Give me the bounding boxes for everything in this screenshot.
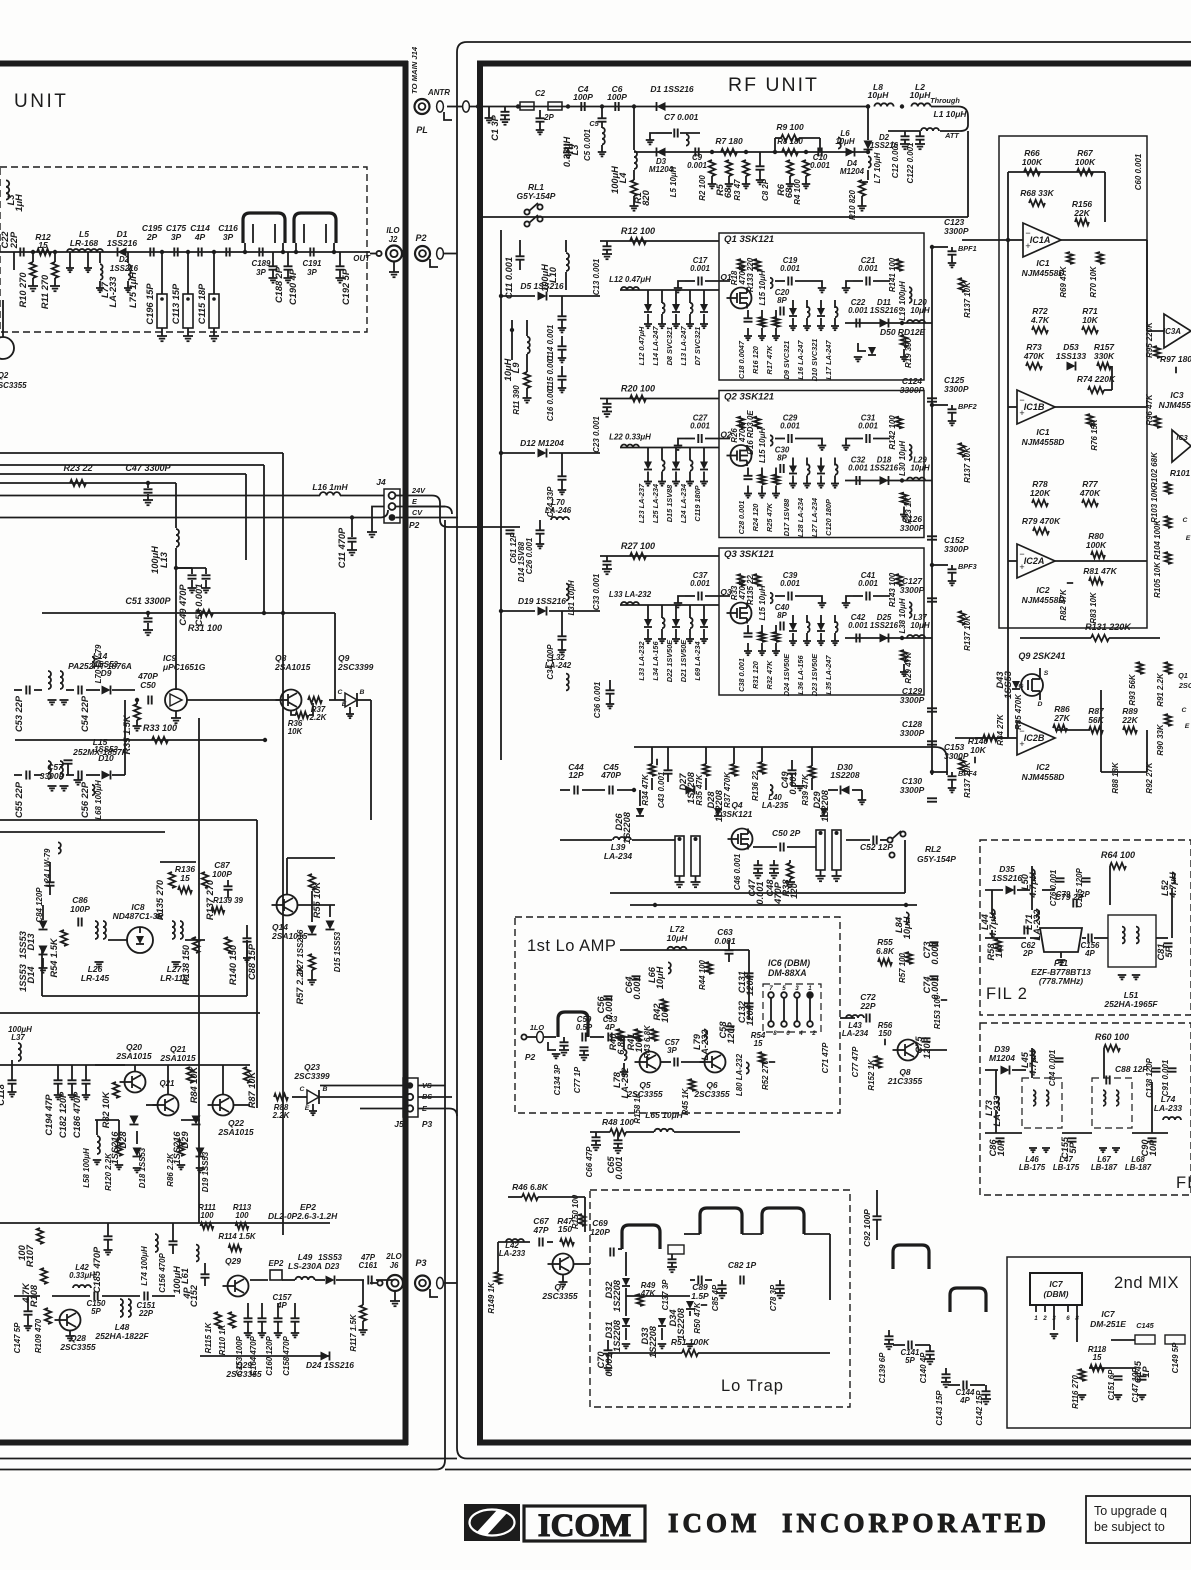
svg-text:Lo Trap: Lo Trap xyxy=(721,1377,784,1395)
svg-text:2SC3355: 2SC3355 xyxy=(225,1369,262,1379)
svg-text:C77 1P: C77 1P xyxy=(573,1066,582,1093)
svg-text:100K: 100K xyxy=(1075,157,1096,167)
svg-text:L13: L13 xyxy=(159,551,169,568)
svg-text:L22 0.33μH: L22 0.33μH xyxy=(609,433,651,442)
svg-text:10μH: 10μH xyxy=(667,933,689,943)
svg-text:R64 100: R64 100 xyxy=(1101,850,1135,860)
svg-text:L16 LA-247: L16 LA-247 xyxy=(796,340,805,380)
svg-text:27K: 27K xyxy=(1053,713,1070,723)
svg-text:21C3355: 21C3355 xyxy=(887,1076,923,1086)
svg-text:R139 39: R139 39 xyxy=(213,896,243,905)
svg-text:R102 68K: R102 68K xyxy=(1150,451,1159,488)
svg-text:10K: 10K xyxy=(1082,315,1098,325)
svg-text:R138 150: R138 150 xyxy=(181,944,191,985)
svg-text:BPF3: BPF3 xyxy=(958,562,977,571)
svg-text:R93 56K: R93 56K xyxy=(1128,673,1137,705)
svg-text:E: E xyxy=(1186,535,1191,542)
svg-text:LR-168: LR-168 xyxy=(70,238,99,248)
svg-text:R44 100: R44 100 xyxy=(698,959,707,989)
svg-text:C191: C191 xyxy=(303,259,322,268)
svg-text:NJM4558D: NJM4558D xyxy=(1022,772,1065,782)
svg-text:1SS216: 1SS216 xyxy=(107,238,137,248)
svg-text:FIL: FIL xyxy=(1176,1174,1191,1192)
svg-text:1SS53: 1SS53 xyxy=(18,963,28,992)
svg-text:L58 100μH: L58 100μH xyxy=(82,1148,91,1188)
svg-text:C11 0.001: C11 0.001 xyxy=(504,257,514,299)
svg-text:R105 10K: R105 10K xyxy=(1153,561,1162,598)
svg-text:C140 4P: C140 4P xyxy=(919,1352,928,1383)
svg-text:2P: 2P xyxy=(1022,949,1033,958)
svg-text:4: 4 xyxy=(798,1030,803,1037)
svg-text:47P: 47P xyxy=(532,1225,548,1235)
svg-text:8P: 8P xyxy=(777,296,787,305)
svg-text:0.001: 0.001 xyxy=(614,1156,624,1179)
svg-text:10μH: 10μH xyxy=(902,916,912,939)
svg-text:10K: 10K xyxy=(288,727,304,736)
svg-text:LB-187: LB-187 xyxy=(1091,1163,1118,1172)
svg-text:1S2208: 1S2208 xyxy=(820,789,830,822)
svg-text:R91 2.2K: R91 2.2K xyxy=(1156,672,1165,707)
svg-text:L36 LA-156: L36 LA-156 xyxy=(796,655,805,695)
svg-text:IC2B: IC2B xyxy=(1024,733,1045,743)
svg-text:C16 0.001: C16 0.001 xyxy=(546,385,555,422)
svg-text:E: E xyxy=(305,1105,310,1112)
svg-text:120P: 120P xyxy=(726,1021,736,1043)
svg-text:L7 10μH: L7 10μH xyxy=(873,152,882,183)
svg-text:C66 47P: C66 47P xyxy=(585,1146,594,1177)
svg-text:C47 3300P: C47 3300P xyxy=(125,463,171,473)
svg-text:1: 1 xyxy=(1034,1315,1038,1322)
svg-text:4P: 4P xyxy=(1084,949,1095,958)
svg-text:100P: 100P xyxy=(212,869,232,879)
svg-text:7: 7 xyxy=(769,985,773,992)
svg-text:C38 0.001: C38 0.001 xyxy=(737,658,746,692)
svg-text:5P: 5P xyxy=(1068,1142,1078,1154)
svg-text:0.001: 0.001 xyxy=(848,306,868,315)
svg-text:R82 10K: R82 10K xyxy=(101,1090,111,1128)
svg-text:LA-242: LA-242 xyxy=(545,661,572,670)
svg-text:100: 100 xyxy=(235,1211,249,1220)
svg-text:100P: 100P xyxy=(607,92,627,102)
svg-text:C: C xyxy=(1183,517,1188,524)
svg-text:ILO: ILO xyxy=(386,226,400,235)
svg-text:2SA1015: 2SA1015 xyxy=(159,1053,196,1063)
svg-text:DM-251E: DM-251E xyxy=(1090,1319,1126,1329)
svg-text:R110 1K: R110 1K xyxy=(218,1323,227,1355)
svg-text:C188 2P: C188 2P xyxy=(274,266,284,303)
svg-text:LA-232: LA-232 xyxy=(700,1029,710,1061)
svg-text:252HA-1822F: 252HA-1822F xyxy=(94,1331,149,1341)
svg-text:LS-230A: LS-230A xyxy=(288,1261,322,1271)
svg-text:LA-234: LA-234 xyxy=(604,851,633,861)
svg-text:R86 2.2K: R86 2.2K xyxy=(166,1152,175,1187)
svg-text:R114 1.5K: R114 1.5K xyxy=(218,1232,257,1241)
svg-text:L34 LA-156: L34 LA-156 xyxy=(651,641,660,681)
svg-text:C13 0.001: C13 0.001 xyxy=(592,259,601,296)
svg-text:D17 1SV88: D17 1SV88 xyxy=(782,498,791,536)
svg-text:C8 2P: C8 2P xyxy=(761,178,770,201)
svg-text:5P: 5P xyxy=(91,1307,101,1316)
svg-text:R137 10K: R137 10K xyxy=(963,281,972,318)
svg-text:R11 390: R11 390 xyxy=(512,385,521,415)
svg-text:UNIT: UNIT xyxy=(14,91,68,112)
svg-text:8P: 8P xyxy=(777,454,787,463)
svg-text:P2: P2 xyxy=(409,520,420,530)
svg-text:R76 15K: R76 15K xyxy=(1090,418,1099,450)
svg-text:10μH: 10μH xyxy=(835,137,855,146)
svg-text:Through: Through xyxy=(930,96,960,105)
svg-text:R11 270: R11 270 xyxy=(40,274,50,309)
svg-text:0.5P: 0.5P xyxy=(576,1023,593,1032)
svg-text:FIL 2: FIL 2 xyxy=(986,985,1028,1003)
svg-text:470K: 470K xyxy=(1023,351,1045,361)
svg-text:R135 270: R135 270 xyxy=(155,879,165,920)
svg-text:6.8K: 6.8K xyxy=(876,946,895,956)
svg-text:C88 15P: C88 15P xyxy=(247,943,257,980)
svg-text:R115 1K: R115 1K xyxy=(204,1321,213,1353)
svg-text:0.001: 0.001 xyxy=(690,422,710,431)
svg-text:LA-233: LA-233 xyxy=(108,276,118,308)
svg-text:C118: C118 xyxy=(0,1083,6,1105)
svg-text:Q2 3SK121: Q2 3SK121 xyxy=(724,392,774,403)
svg-text:0.001: 0.001 xyxy=(780,422,800,431)
svg-text:DM-88XA: DM-88XA xyxy=(768,968,807,978)
svg-text:R10 820: R10 820 xyxy=(848,189,857,219)
svg-text:Q2: Q2 xyxy=(720,430,732,440)
svg-text:D23 1SV50E: D23 1SV50E xyxy=(810,653,819,696)
svg-text:IC3A: IC3A xyxy=(1163,327,1181,336)
svg-text:IC2: IC2 xyxy=(1036,762,1049,772)
svg-text:C54 22P: C54 22P xyxy=(80,695,90,732)
svg-text:R27 100: R27 100 xyxy=(621,541,655,551)
svg-text:3300P: 3300P xyxy=(40,771,65,781)
svg-text:820: 820 xyxy=(641,189,651,205)
svg-text:C194 47P: C194 47P xyxy=(44,1094,54,1136)
svg-text:R116 270: R116 270 xyxy=(1071,1375,1080,1409)
svg-text:470P: 470P xyxy=(137,671,158,681)
svg-text:IC6 (DBM): IC6 (DBM) xyxy=(768,958,810,968)
svg-text:3300P: 3300P xyxy=(900,695,925,705)
svg-text:C115 18P: C115 18P xyxy=(197,283,207,324)
svg-text:L28 LA-234: L28 LA-234 xyxy=(796,498,805,537)
svg-text:R142 100: R142 100 xyxy=(888,415,897,450)
svg-text:1SS53: 1SS53 xyxy=(318,1253,342,1262)
svg-text:R79 470K: R79 470K xyxy=(1022,516,1061,526)
svg-text:C60 0.001: C60 0.001 xyxy=(1134,154,1143,191)
svg-text:Q1: Q1 xyxy=(1178,671,1188,680)
svg-text:0.001: 0.001 xyxy=(714,936,735,946)
svg-text:4.7K: 4.7K xyxy=(21,1282,31,1304)
svg-text:D7 SVC321: D7 SVC321 xyxy=(693,327,702,366)
svg-text:2SC3355: 2SC3355 xyxy=(626,1089,663,1099)
svg-text:L30 10μH: L30 10μH xyxy=(898,441,907,476)
svg-text:C77 47P: C77 47P xyxy=(851,1046,860,1077)
svg-text:0.001: 0.001 xyxy=(690,579,710,588)
svg-text:C134 3P: C134 3P xyxy=(553,1064,562,1095)
svg-text:C51 3300P: C51 3300P xyxy=(125,596,171,606)
svg-text:2SC3355: 2SC3355 xyxy=(59,1342,96,1352)
svg-text:0.001: 0.001 xyxy=(858,422,878,431)
svg-text:C49 470P: C49 470P xyxy=(178,584,188,626)
svg-text:R152 1K: R152 1K xyxy=(867,1058,876,1090)
svg-text:10μH: 10μH xyxy=(655,966,665,989)
svg-text:470P: 470P xyxy=(600,770,621,780)
svg-text:D10: D10 xyxy=(98,753,114,763)
svg-text:C55 22P: C55 22P xyxy=(14,781,24,818)
svg-text:120K: 120K xyxy=(1030,488,1051,498)
svg-text:R29 47K: R29 47K xyxy=(904,651,913,683)
svg-text:0.001: 0.001 xyxy=(810,161,830,170)
svg-text:D14 1SV88: D14 1SV88 xyxy=(517,541,526,582)
svg-text:56K: 56K xyxy=(1088,715,1104,725)
svg-text:252HA-1965F: 252HA-1965F xyxy=(1103,999,1158,1009)
svg-text:0.001: 0.001 xyxy=(858,264,878,273)
svg-text:L27 LA-234: L27 LA-234 xyxy=(810,498,819,537)
svg-text:ICOM INCORPORATED: ICOM INCORPORATED xyxy=(668,1508,1050,1538)
svg-text:3300P: 3300P xyxy=(944,226,969,236)
svg-text:R39 47K: R39 47K xyxy=(801,773,810,805)
svg-text:L17 LA-247: L17 LA-247 xyxy=(824,340,833,380)
svg-text:R4 100: R4 100 xyxy=(793,179,802,205)
svg-text:1SS216: 1SS216 xyxy=(870,621,899,630)
svg-text:IC1: IC1 xyxy=(1036,427,1049,437)
svg-text:L33 LA-232: L33 LA-232 xyxy=(609,590,652,599)
svg-text:C82 1P: C82 1P xyxy=(728,1260,757,1270)
svg-text:C26 0.001: C26 0.001 xyxy=(525,538,534,575)
svg-text:L38 10μH: L38 10μH xyxy=(898,598,907,633)
svg-text:R87 10K: R87 10K xyxy=(247,1070,257,1108)
svg-text:10μH: 10μH xyxy=(868,90,890,100)
svg-text:120P: 120P xyxy=(590,1227,610,1237)
svg-text:2P: 2P xyxy=(543,113,554,122)
svg-text:C88 12P: C88 12P xyxy=(1115,1064,1148,1074)
svg-text:L68 100μH: L68 100μH xyxy=(94,780,103,820)
svg-text:IC2A: IC2A xyxy=(1024,556,1045,566)
svg-text:C28 0.001: C28 0.001 xyxy=(737,501,746,535)
svg-text:R46 6.8K: R46 6.8K xyxy=(512,1182,549,1192)
svg-text:R50 47K: R50 47K xyxy=(693,1301,702,1333)
svg-text:R7 180: R7 180 xyxy=(715,136,743,146)
svg-text:22K: 22K xyxy=(1121,715,1138,725)
svg-text:1μH: 1μH xyxy=(14,194,24,212)
svg-text:C113 15P: C113 15P xyxy=(171,283,181,324)
svg-text:L1 10μH: L1 10μH xyxy=(934,109,968,119)
svg-text:1SS133: 1SS133 xyxy=(1056,351,1086,361)
svg-text:22P: 22P xyxy=(9,231,19,249)
svg-text:24V: 24V xyxy=(411,486,426,495)
svg-text:R33 100: R33 100 xyxy=(143,723,177,733)
svg-text:R131 220K: R131 220K xyxy=(1085,622,1132,632)
svg-text:C92 100P: C92 100P xyxy=(862,1209,872,1247)
svg-text:LA-246: LA-246 xyxy=(545,506,572,515)
svg-text:15: 15 xyxy=(180,873,190,883)
svg-text:NJM4558D: NJM4558D xyxy=(1022,268,1065,278)
svg-text:L15 10μH: L15 10μH xyxy=(758,428,767,463)
svg-text:C145: C145 xyxy=(1136,1321,1154,1330)
svg-text:C50: C50 xyxy=(140,680,156,690)
svg-text:2SC3399: 2SC3399 xyxy=(293,1071,330,1081)
svg-text:IC3: IC3 xyxy=(1170,390,1183,400)
svg-text:4P: 4P xyxy=(276,1301,287,1310)
svg-text:4P: 4P xyxy=(194,232,206,242)
svg-text:4P: 4P xyxy=(604,1023,615,1032)
svg-text:2SC3355: 2SC3355 xyxy=(541,1291,578,1301)
svg-text:C137 3P: C137 3P xyxy=(661,1279,670,1310)
svg-text:3300P: 3300P xyxy=(944,544,969,554)
svg-text:J4: J4 xyxy=(376,477,386,487)
svg-text:R2 100: R2 100 xyxy=(698,175,707,201)
svg-text:330K: 330K xyxy=(1094,351,1115,361)
svg-text:3P: 3P xyxy=(171,232,182,242)
svg-text:0.001: 0.001 xyxy=(788,771,798,794)
svg-text:47P: 47P xyxy=(360,1253,376,1262)
svg-text:2: 2 xyxy=(1042,1315,1047,1322)
svg-text:15: 15 xyxy=(754,1039,763,1048)
svg-text:BPF1: BPF1 xyxy=(958,244,977,253)
svg-text:0.001: 0.001 xyxy=(687,161,707,170)
svg-text:be subject to: be subject to xyxy=(1094,1520,1165,1534)
svg-text:R57 2.2K: R57 2.2K xyxy=(295,964,305,1004)
svg-text:R120 2.2K: R120 2.2K xyxy=(104,1152,113,1191)
svg-text:D22 1SV50E: D22 1SV50E xyxy=(665,639,674,682)
svg-text:22P: 22P xyxy=(859,1001,875,1011)
svg-text:R74 220K: R74 220K xyxy=(1077,374,1116,384)
svg-text:15: 15 xyxy=(1093,1353,1102,1362)
svg-text:R137 10K: R137 10K xyxy=(963,614,972,651)
svg-text:L23 LA-237: L23 LA-237 xyxy=(637,483,646,523)
svg-text:1SS53: 1SS53 xyxy=(18,930,28,959)
svg-text:C50 2P: C50 2P xyxy=(772,828,801,838)
svg-text:C12 0.007: C12 0.007 xyxy=(891,141,900,178)
svg-text:L15 10μH: L15 10μH xyxy=(758,270,767,305)
svg-text:2P: 2P xyxy=(146,232,158,242)
svg-text:R140 150: R140 150 xyxy=(228,944,238,985)
svg-text:R85 470K: R85 470K xyxy=(1014,693,1023,730)
svg-text:IC1B: IC1B xyxy=(1024,402,1045,412)
svg-text:D19 1SS216: D19 1SS216 xyxy=(518,596,566,606)
svg-text:IC7: IC7 xyxy=(1049,1279,1063,1289)
svg-text:4P: 4P xyxy=(182,1287,192,1300)
svg-text:3300P: 3300P xyxy=(900,385,925,395)
svg-text:C143 15P: C143 15P xyxy=(935,1390,944,1426)
svg-text:D1 1SS216: D1 1SS216 xyxy=(650,84,694,94)
svg-text:C7 0.001: C7 0.001 xyxy=(664,112,699,122)
svg-text:2SA1015: 2SA1015 xyxy=(115,1051,152,1061)
svg-text:5: 5 xyxy=(782,985,786,992)
svg-text:C11 470P: C11 470P xyxy=(337,527,347,568)
svg-text:TO MAIN J14: TO MAIN J14 xyxy=(410,46,419,94)
svg-text:R20 100: R20 100 xyxy=(621,384,655,394)
svg-text:LB-175: LB-175 xyxy=(1019,1163,1046,1172)
svg-text:C5 0.001: C5 0.001 xyxy=(583,129,592,161)
svg-text:1S2208: 1S2208 xyxy=(676,1307,686,1340)
svg-text:C5: C5 xyxy=(589,119,599,128)
svg-text:2P: 2P xyxy=(1079,890,1090,899)
svg-text:R149 1K: R149 1K xyxy=(487,1281,496,1313)
svg-text:ICOM: ICOM xyxy=(538,1508,632,1544)
svg-text:R68 33K: R68 33K xyxy=(1020,188,1054,198)
svg-text:100μH: 100μH xyxy=(172,1266,182,1294)
svg-text:R31 120: R31 120 xyxy=(751,661,760,689)
svg-text:NJM4558D: NJM4558D xyxy=(1022,437,1065,447)
svg-text:100: 100 xyxy=(200,1211,214,1220)
svg-text:1S2208: 1S2208 xyxy=(830,770,859,780)
svg-text:D8 SVC321: D8 SVC321 xyxy=(665,327,674,366)
svg-text:R109 470: R109 470 xyxy=(34,1318,43,1353)
svg-text:D50 RD12E: D50 RD12E xyxy=(880,327,926,337)
svg-text:2SC3355: 2SC3355 xyxy=(0,381,27,390)
svg-text:R16 120: R16 120 xyxy=(751,346,760,374)
svg-text:1st Lo AMP: 1st Lo AMP xyxy=(527,937,616,955)
svg-text:LR-145: LR-145 xyxy=(81,973,110,983)
svg-text:S: S xyxy=(1044,670,1049,677)
svg-text:R69 47K: R69 47K xyxy=(1059,265,1068,297)
svg-text:470K: 470K xyxy=(1079,488,1101,498)
svg-text:R35 47K: R35 47K xyxy=(695,773,704,805)
svg-text:C36 0.001: C36 0.001 xyxy=(593,682,602,719)
svg-text:D12 M1204: D12 M1204 xyxy=(520,438,564,448)
svg-text:Q21: Q21 xyxy=(160,1079,175,1088)
svg-text:C161: C161 xyxy=(359,1261,378,1270)
svg-text:R137 10K: R137 10K xyxy=(963,761,972,798)
svg-text:3: 3 xyxy=(795,985,799,992)
svg-text:L33 LA-232: L33 LA-232 xyxy=(637,641,646,680)
svg-text:4P: 4P xyxy=(959,1396,970,1405)
svg-text:C84 0.001: C84 0.001 xyxy=(1048,1050,1057,1087)
svg-text:C84 120P: C84 120P xyxy=(35,887,44,923)
svg-text:10μH: 10μH xyxy=(910,306,930,315)
svg-text:C53 22P: C53 22P xyxy=(14,695,24,732)
svg-text:C23 0.001: C23 0.001 xyxy=(592,416,601,453)
svg-text:150: 150 xyxy=(878,1029,892,1038)
svg-text:L13 LA-247: L13 LA-247 xyxy=(679,326,688,366)
svg-text:C: C xyxy=(338,689,343,696)
svg-text:D15 1SV88: D15 1SV88 xyxy=(665,484,674,522)
svg-text:1: 1 xyxy=(808,985,812,992)
svg-text:R117 1.5K: R117 1.5K xyxy=(349,1313,358,1352)
svg-text:100K: 100K xyxy=(1022,157,1043,167)
svg-text:1.5P: 1.5P xyxy=(691,1291,709,1301)
svg-text:R136 22: R136 22 xyxy=(751,770,760,800)
svg-text:R158 1K: R158 1K xyxy=(633,1091,642,1123)
svg-text:B: B xyxy=(323,1086,328,1093)
svg-text:100μH: 100μH xyxy=(8,1025,32,1034)
svg-text:2nd MIX: 2nd MIX xyxy=(1114,1274,1179,1292)
svg-text:0.33μH: 0.33μH xyxy=(562,137,572,168)
svg-text:L69 LA-234: L69 LA-234 xyxy=(693,641,702,680)
svg-text:D24 1SV50E: D24 1SV50E xyxy=(782,653,791,696)
svg-text:10K: 10K xyxy=(970,745,986,755)
svg-text:R48 100: R48 100 xyxy=(602,1117,634,1127)
svg-text:BPF2: BPF2 xyxy=(958,402,977,411)
svg-text:D10 SVC321: D10 SVC321 xyxy=(810,339,819,382)
svg-text:NJM4558: NJM4558 xyxy=(1159,400,1191,410)
svg-text:0.001: 0.001 xyxy=(858,579,878,588)
svg-text:100: 100 xyxy=(17,1244,27,1260)
svg-text:R24 120: R24 120 xyxy=(751,504,760,532)
svg-text:3300P: 3300P xyxy=(900,585,925,595)
svg-text:P3: P3 xyxy=(415,1258,426,1268)
svg-text:R34 47K: R34 47K xyxy=(641,773,650,805)
svg-text:D23: D23 xyxy=(325,1262,340,1271)
svg-text:2SC3399: 2SC3399 xyxy=(337,662,374,672)
svg-text:L25 LA-234: L25 LA-234 xyxy=(651,484,660,523)
svg-text:ANTR: ANTR xyxy=(427,88,450,97)
svg-text:2LO: 2LO xyxy=(385,1252,402,1261)
svg-text:C185 470P: C185 470P xyxy=(92,1246,102,1293)
svg-text:R83 10K: R83 10K xyxy=(1089,591,1098,623)
svg-text:R153 100: R153 100 xyxy=(933,994,942,1029)
